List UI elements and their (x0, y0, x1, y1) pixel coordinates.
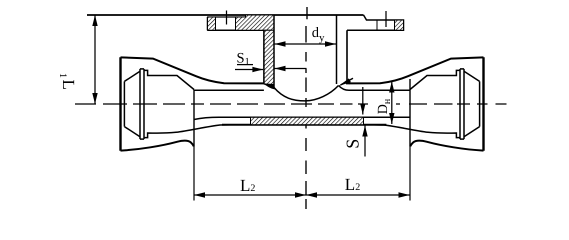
svg-text:Dн: Dн (376, 98, 393, 114)
dimension dy (275, 43, 337, 45)
dimension S1 right arrow (275, 68, 307, 70)
right flange (outside view) (347, 15, 404, 30)
pipe inner bottom line (194, 117, 410, 119)
saddle curve (branch opening into pipe) (274, 86, 339, 101)
pipe outer bottom line (222, 124, 386, 126)
right socket ridge (463, 69, 465, 139)
right socket outer outline (482, 57, 484, 150)
branch right outer wall (347, 30, 350, 83)
left flange bolt hole (215, 17, 217, 30)
left flange (sectioned) (207, 17, 209, 30)
pipe inner top line left (194, 89, 264, 91)
left flange hatched rim (208, 17, 216, 30)
svg-text:1L: 1L (57, 73, 78, 90)
pipe bottom wall hatch strip (251, 117, 364, 124)
right L2 witness line (409, 147, 411, 201)
pipe inner top right (339, 86, 411, 91)
dimension S upper arrow (362, 87, 364, 115)
left socket ridge (139, 69, 141, 139)
right socket inner profile lines (479, 81, 481, 126)
left socket outer outline (119, 57, 121, 150)
left L2 witness line lower part (193, 147, 195, 201)
svg-text:L2: L2 (345, 175, 360, 194)
top line (flange face + L1 extension) (87, 14, 364, 16)
horizontal centerline (75, 103, 507, 105)
dimension S lower arrow (364, 126, 366, 157)
branch left wall (hatched column) (264, 30, 274, 87)
dimension S1 leader (237, 64, 253, 66)
dimension L1 (94, 15, 96, 104)
left flange hatched body (236, 15, 275, 30)
svg-text:S: S (343, 139, 363, 149)
svg-text:dу: dу (312, 25, 325, 44)
left socket inner profile lines (123, 81, 125, 126)
dimension Dn (391, 82, 393, 125)
left step face / L2 witness line (193, 90, 195, 147)
branch right bore line (336, 15, 338, 84)
svg-text:S1: S1 (237, 51, 250, 68)
svg-text:L2: L2 (240, 176, 255, 195)
right flange hatched rim (395, 20, 404, 30)
oblique arrow at saddle junction (339, 78, 353, 86)
branch wall to pipe fillet (dark corner) (264, 83, 275, 89)
branch vertical centerline (306, 7, 307, 209)
right flange bolt axis tick (385, 11, 387, 27)
dimension L2 line (194, 194, 410, 196)
right step face (409, 79, 411, 147)
left flange bolt axis tick (226, 11, 228, 25)
